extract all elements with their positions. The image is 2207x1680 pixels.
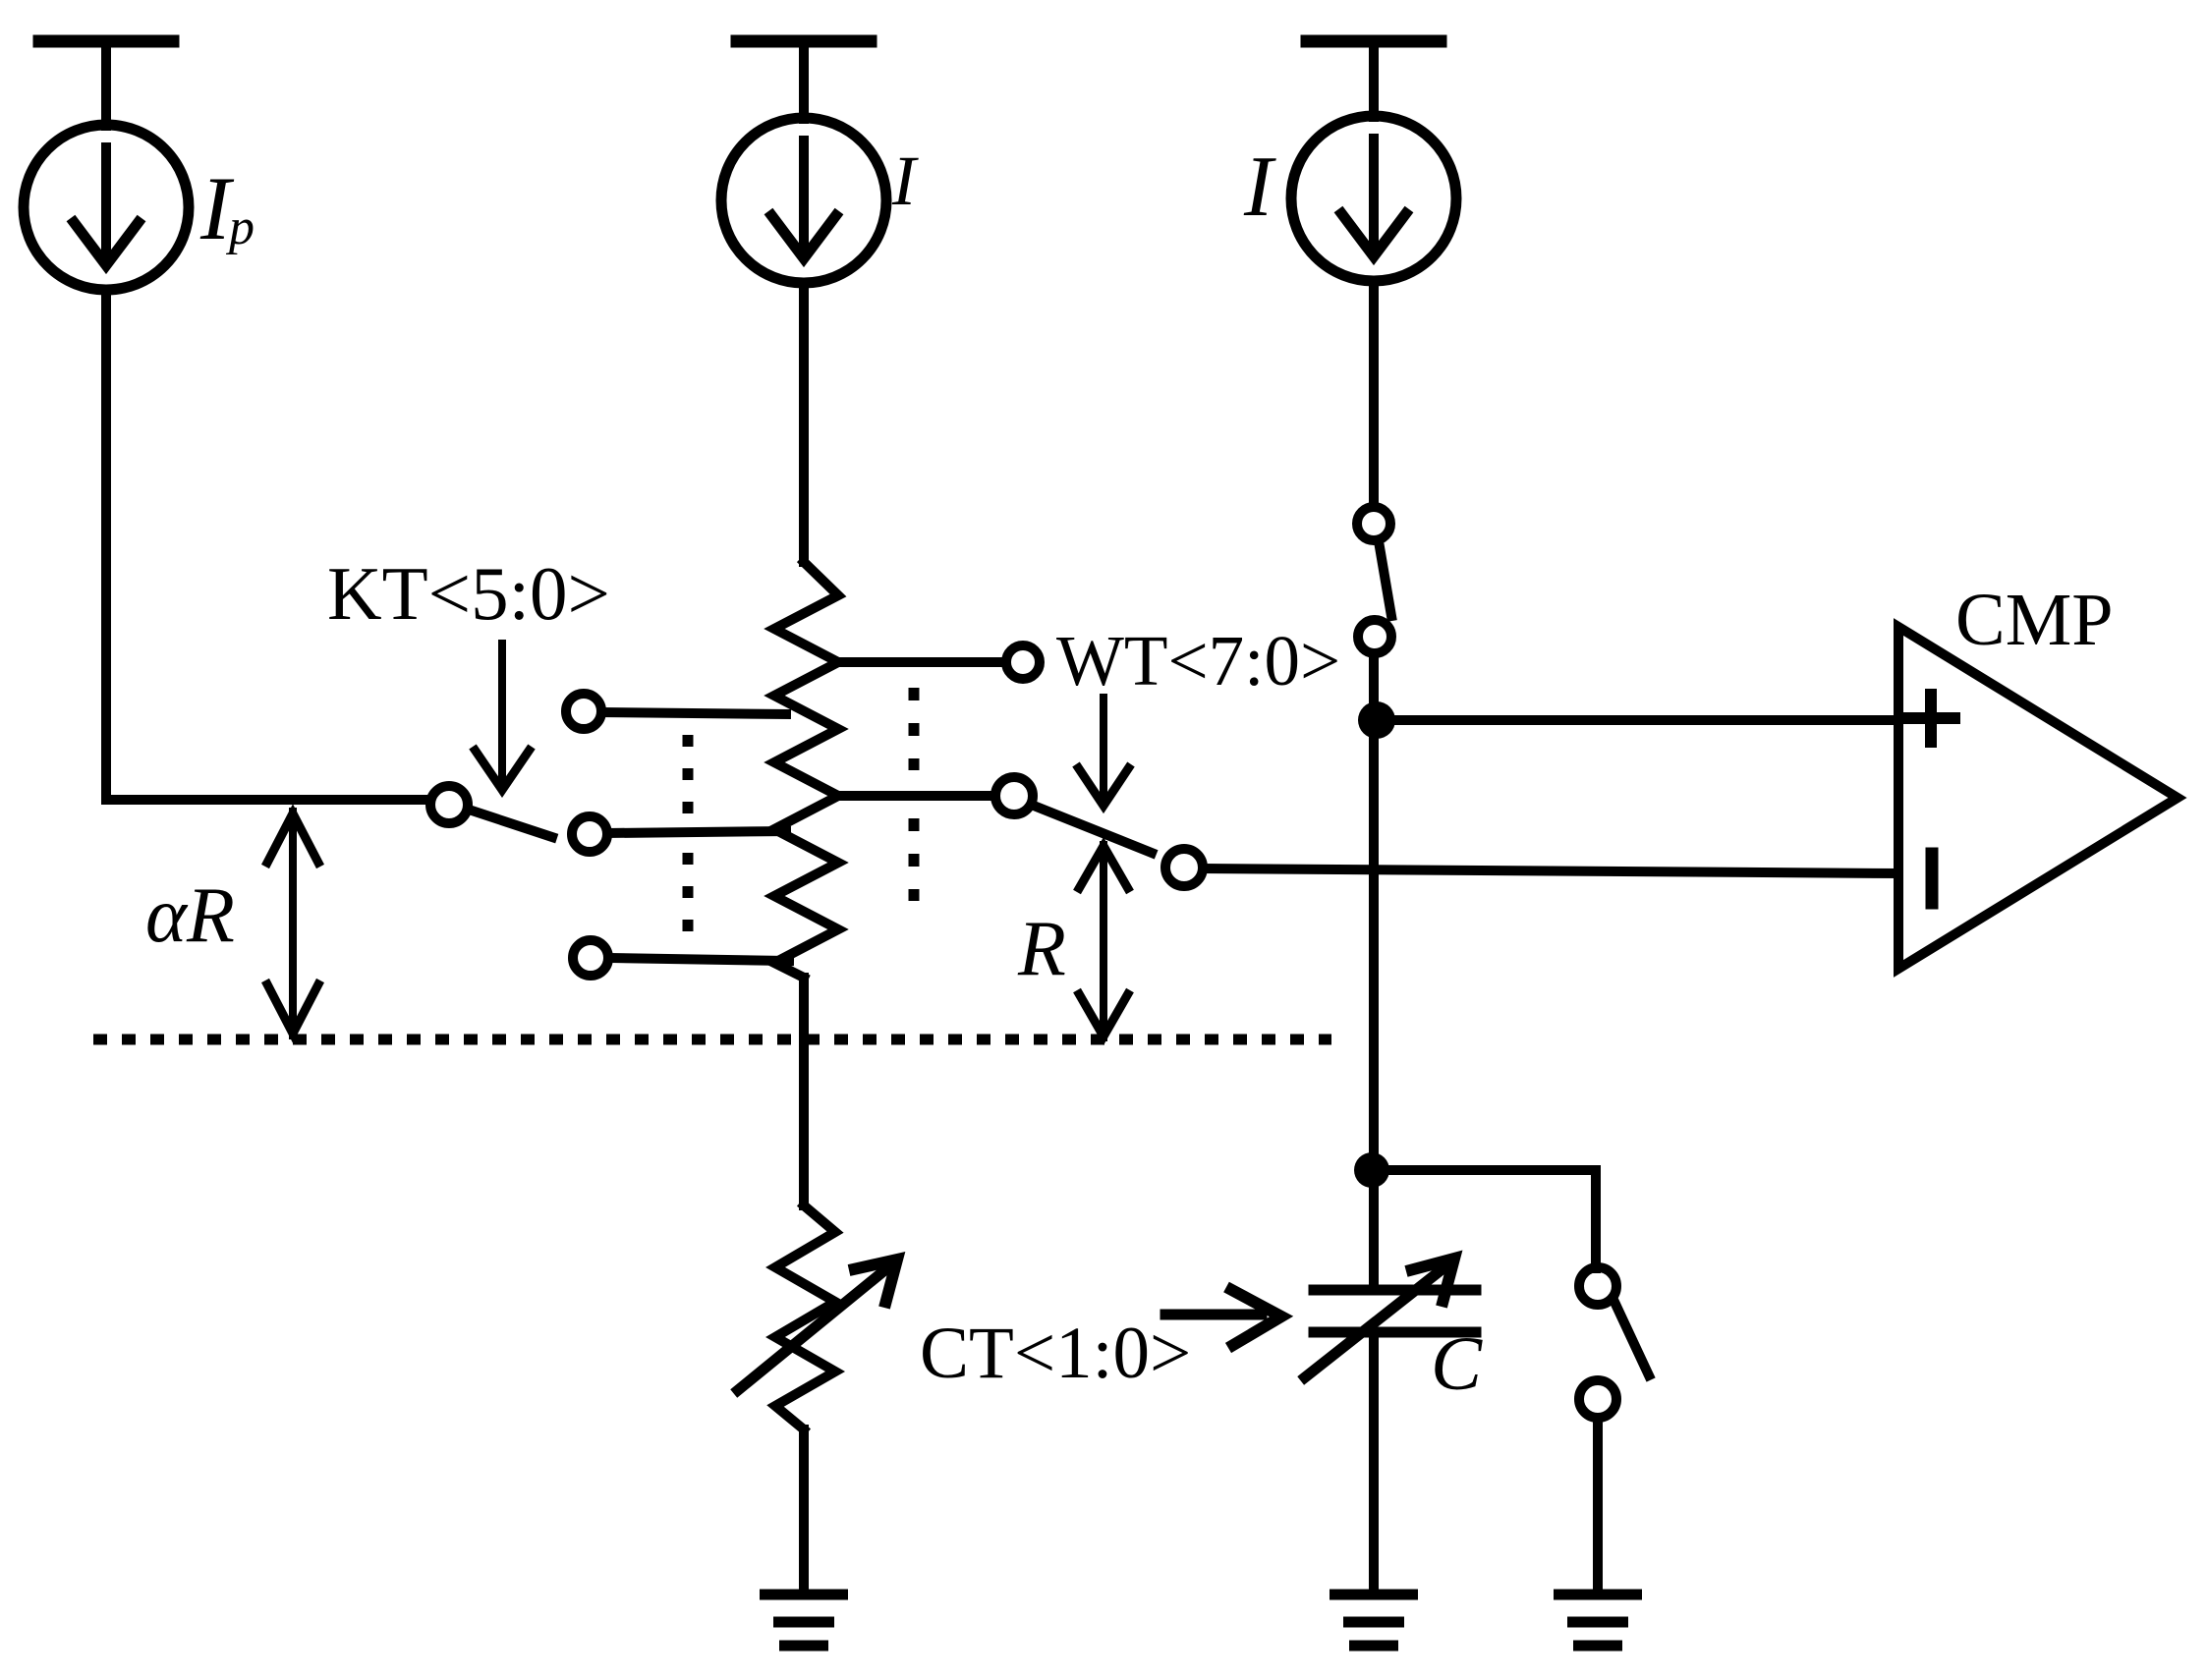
svg-text:WT<7:0>: WT<7:0> — [1056, 621, 1340, 700]
svg-text:αR: αR — [145, 872, 235, 959]
svg-text:CT<1:0>: CT<1:0> — [920, 1313, 1191, 1394]
svg-text:I: I — [1243, 140, 1276, 235]
svg-text:KT<5:0>: KT<5:0> — [327, 551, 610, 636]
svg-text:p: p — [225, 199, 255, 255]
svg-text:C: C — [1431, 1320, 1483, 1406]
svg-text:R: R — [1017, 906, 1066, 992]
svg-text:CMP: CMP — [1955, 579, 2114, 661]
svg-text:I: I — [891, 141, 919, 220]
